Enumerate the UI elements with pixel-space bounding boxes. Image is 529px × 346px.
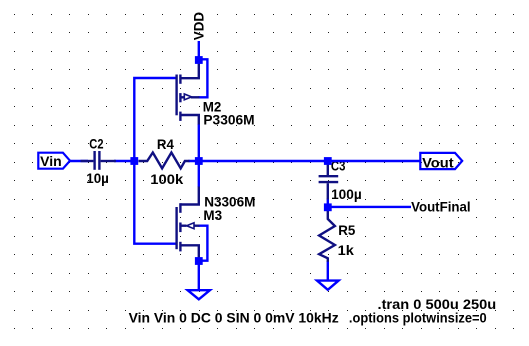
wire: PMOS bulk tie to source: [199, 59, 208, 97]
transistor M2 (PMOS): [177, 61, 200, 125]
capacitor C3: [319, 163, 339, 200]
arrow of M3 (points left): [187, 223, 194, 229]
gate bar: [175, 75, 177, 116]
bulk stub with arrow: [181, 224, 187, 226]
svg-text:Vin: Vin: [40, 154, 61, 169]
junction M2 source / VDD / bulk: [195, 56, 203, 64]
resistor R4: [139, 153, 190, 169]
arrow of M2 (points right): [184, 94, 191, 100]
bulk stub with arrow: [181, 96, 185, 98]
svg-text:M3: M3: [203, 208, 222, 223]
capacitor C2: [81, 151, 116, 170]
wire: VoutFinal stub: [330, 206, 411, 208]
wire: R4 right to Vout port: [189, 160, 422, 162]
svg-text:P3306M: P3306M: [203, 112, 254, 127]
wire: NMOS bulk tie to source: [199, 226, 208, 261]
wire: C2 right to junction A: [114, 160, 134, 162]
junction node A (R4 left / gate bus / main wire): [130, 157, 138, 165]
svg-text:10µ: 10µ: [86, 171, 109, 186]
junction C3 bottom / R5 / VoutFinal: [324, 203, 332, 211]
gate bar: [175, 207, 177, 249]
channel segments: [179, 75, 181, 84]
wire: VDD stub: [198, 41, 200, 57]
wire: R5 bottom to ground: [327, 261, 329, 280]
resistor R5: [319, 211, 335, 262]
svg-text:N3306M: N3306M: [204, 194, 255, 209]
svg-text:1k: 1k: [338, 243, 355, 258]
ground under R5: [317, 281, 339, 290]
source stub down to pin: [181, 245, 199, 258]
svg-text:.options plotwinsize=0: .options plotwinsize=0: [349, 311, 487, 326]
svg-text:R4: R4: [157, 137, 174, 152]
junction M3 source / ground / bulk: [195, 257, 203, 265]
svg-text:VDD: VDD: [191, 12, 206, 40]
channel segments: [179, 203, 181, 213]
wire: NMOS source to ground: [198, 263, 200, 290]
junction node OUT (R4 right / drains / main wire): [195, 157, 203, 165]
drain stub up to pin: [181, 187, 199, 205]
port Vout: [420, 153, 462, 169]
port Vin: [38, 153, 70, 169]
svg-text:Vin Vin 0 DC 0 SIN 0 0mV 10kHz: Vin Vin 0 DC 0 SIN 0 0mV 10kHz: [129, 311, 339, 326]
svg-text:100µ: 100µ: [331, 187, 362, 202]
svg-text:R5: R5: [338, 223, 356, 238]
wire: main horizontal Vin to C2: [70, 160, 89, 162]
svg-text:C2: C2: [89, 137, 104, 152]
ground under M3: [188, 290, 210, 299]
wire: C3 bottom to node VoutFinal: [327, 199, 329, 206]
svg-text:Vout: Vout: [422, 155, 454, 170]
wire: PMOS drain to NMOS drain through node OUT: [198, 124, 200, 187]
wire: gate bus (left vertical with stubs to both gates): [134, 78, 176, 244]
junction C3 top / main wire: [324, 157, 332, 165]
svg-text:100k: 100k: [150, 172, 183, 187]
source stub up to pin: [181, 61, 199, 78]
transistor M3 (NMOS): [177, 187, 200, 259]
svg-text:VoutFinal: VoutFinal: [411, 200, 471, 215]
drain stub down to pin: [181, 115, 199, 125]
